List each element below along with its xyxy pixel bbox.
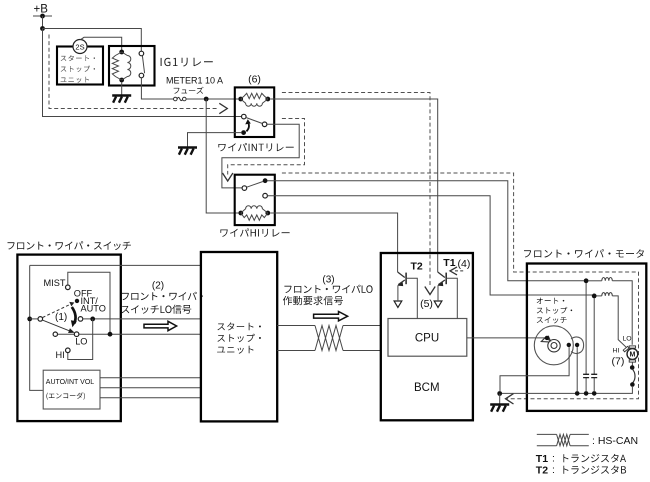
label front wiper LO request line1 bbox=[284, 285, 372, 294]
label fuse bbox=[174, 87, 204, 94]
wire pole stub bbox=[30, 318, 38, 320]
svg-text:(1): (1) bbox=[55, 312, 67, 323]
wire INT pivot to ground bbox=[188, 133, 242, 147]
junction +B terminal bbox=[40, 14, 45, 19]
arrowhead into T1 base bbox=[450, 267, 457, 275]
label IG1 relay bbox=[161, 58, 213, 67]
wire HS-CAN twist B bbox=[315, 326, 343, 351]
junction bus capacitor 2 bbox=[592, 391, 597, 396]
wire HS-CAN low rail right bbox=[343, 350, 381, 352]
wire junction to HI contact bbox=[68, 319, 93, 360]
label start-stop unit line3 bbox=[61, 77, 89, 83]
junction motor ground node bbox=[497, 391, 502, 396]
wire HI coil to T2 collector bbox=[270, 213, 397, 272]
wire +B drop bbox=[42, 16, 44, 29]
motor M armature bbox=[627, 349, 638, 360]
wire capacitor 1 to bus bbox=[585, 378, 587, 391]
label start-stop unit line2 bbox=[61, 66, 95, 72]
svg-text:MIST: MIST bbox=[44, 278, 66, 288]
junction HI coil left bbox=[238, 211, 243, 216]
junction switch LO-signal node bbox=[90, 317, 95, 322]
label front wiper switch LO signal line2 bbox=[121, 305, 191, 314]
label legend transistor A bbox=[563, 454, 626, 463]
wire LO winding to inductor bbox=[588, 280, 602, 282]
label front wiper motor title bbox=[524, 249, 644, 258]
contact INT-AUTO bbox=[78, 317, 83, 322]
wire HI relay NO to motor HI winding bbox=[267, 196, 592, 295]
junction motor HI winding feed bbox=[592, 294, 597, 299]
wire LO output bbox=[79, 333, 201, 335]
contact arm INT relay bbox=[246, 118, 262, 124]
arrow INT relay actuation bbox=[246, 123, 249, 131]
label start-stop mid line2 bbox=[217, 334, 261, 342]
label front wiper switch LO signal line1 bbox=[122, 292, 203, 300]
auto-stop switch cam plate bbox=[534, 326, 573, 365]
contact INT relay NO bbox=[262, 122, 267, 127]
wire capacitor 2 to bus bbox=[593, 378, 595, 391]
svg-text:T2: T2 bbox=[536, 465, 548, 477]
wire LO bridge bbox=[58, 333, 75, 335]
wire LO feed to capacitor 1 bbox=[585, 283, 587, 374]
wire T1 emitter bbox=[437, 285, 439, 300]
label auto-stop switch line3 bbox=[537, 317, 567, 324]
svg-text:M: M bbox=[629, 352, 635, 359]
wire T1 base to CPU bbox=[446, 278, 457, 318]
wire junction down to HI relay coil bbox=[206, 99, 238, 213]
arrowhead signal into BCM bbox=[425, 287, 435, 295]
junction auto-stop arm top bbox=[630, 365, 635, 370]
svg-text:(3): (3) bbox=[322, 275, 334, 286]
arrowhead signal to INT relay bbox=[219, 103, 227, 113]
contact HI bbox=[66, 348, 71, 353]
wire fuse to junction bbox=[186, 98, 238, 100]
svg-text::: : bbox=[552, 464, 555, 476]
svg-text:LO: LO bbox=[623, 336, 632, 343]
svg-text:CPU: CPU bbox=[415, 333, 439, 345]
svg-text:BCM: BCM bbox=[414, 382, 440, 394]
svg-text:HI: HI bbox=[613, 348, 620, 355]
wire INT-AUTO output bbox=[83, 318, 201, 320]
dashed signal start-stop to BCM bbox=[282, 93, 430, 286]
wire HS-CAN high rail right bbox=[343, 325, 381, 327]
ground front wiper motor bbox=[490, 403, 509, 406]
junction auto-stop arm bottom bbox=[630, 382, 635, 387]
dashed signal INT relay to HI relay bbox=[228, 119, 305, 175]
svg-text:+B: +B bbox=[34, 4, 49, 16]
module BCM box bbox=[381, 253, 473, 420]
contact auto-stop cam bbox=[545, 336, 549, 340]
wire INT relay output to HI relay common bbox=[222, 124, 299, 188]
contact HI relay pole bbox=[242, 186, 247, 191]
contact IG1 relay lower bbox=[139, 73, 144, 78]
junction IG1 coil bottom bbox=[119, 78, 124, 83]
label start-stop mid line3 bbox=[217, 346, 253, 354]
dashed arrow signal into T1 base (4) bbox=[455, 270, 464, 272]
svg-text:T2: T2 bbox=[411, 261, 423, 273]
resistor INT relay coil bbox=[241, 93, 268, 99]
encoder AUTO/INT VOL box bbox=[43, 370, 100, 409]
svg-text:T1: T1 bbox=[443, 257, 455, 269]
label start-stop unit line1 bbox=[61, 55, 95, 61]
inductor HI relay coil bbox=[241, 206, 268, 213]
ground INT relay bbox=[178, 146, 197, 149]
svg-text:(4): (4) bbox=[458, 258, 471, 270]
connector 2S bbox=[73, 40, 87, 54]
fuse METER1 10A bbox=[174, 97, 178, 101]
dashed signal start-stop unit to wiper INT relay bbox=[49, 35, 219, 109]
label front wiper LO request line2 bbox=[283, 296, 343, 305]
contact auto-stop right bbox=[575, 343, 579, 347]
legend HS-CAN rail top left bbox=[537, 433, 557, 435]
wire CPU to auto-stop switch bbox=[467, 337, 545, 339]
capacitor C2 bbox=[591, 374, 597, 377]
legend HS-CAN rail bottom right bbox=[570, 445, 589, 447]
svg-text:2S: 2S bbox=[75, 42, 84, 51]
resistor IG1 coil bbox=[112, 52, 121, 80]
contact HI relay common pin bbox=[263, 178, 268, 183]
arrowhead signal into HI relay bbox=[223, 173, 233, 181]
wire to motor ground bbox=[499, 394, 501, 405]
contact arm auto-stop (curved) bbox=[632, 369, 635, 383]
svg-text:: HS-CAN: : HS-CAN bbox=[592, 435, 638, 447]
wire INT coil to T1 collector bbox=[270, 99, 438, 272]
switch arm to LO (solid) bbox=[43, 320, 71, 331]
inductor motor HI winding bbox=[602, 293, 613, 296]
wire +B terminal tick bbox=[33, 15, 52, 17]
ground T2 emitter (triangle) bbox=[394, 301, 402, 307]
wire auto-stop left contact to ground bbox=[500, 347, 569, 391]
contact INT relay common bbox=[242, 114, 247, 119]
junction bus auto-stop right bbox=[575, 391, 580, 396]
wire LO winding to motor bbox=[612, 281, 632, 345]
relay IG1 box bbox=[109, 46, 155, 86]
contact MIST bbox=[66, 285, 71, 290]
wire IG1 coil to ground bbox=[121, 82, 123, 95]
label auto-stop switch line1 bbox=[537, 298, 565, 304]
wire HS-CAN low rail left bbox=[277, 350, 315, 352]
junction INT coil right bbox=[265, 97, 270, 102]
label wiper HI relay bbox=[220, 228, 289, 237]
svg-text:(2): (2) bbox=[152, 281, 164, 292]
arrow LO signal flow (2) bbox=[144, 321, 177, 330]
arrowhead signal to motor ground bbox=[506, 394, 514, 404]
wire arm to ground bus bbox=[500, 386, 632, 393]
wire HI feed to capacitor 2 bbox=[593, 298, 595, 374]
label wiper INT relay bbox=[218, 143, 293, 152]
wire HS-CAN twist A bbox=[315, 326, 343, 351]
front wiper switch box bbox=[17, 255, 120, 422]
junction bus capacitor 1 bbox=[584, 391, 589, 396]
svg-text:LO: LO bbox=[75, 336, 87, 346]
wire encoder line 3 bbox=[100, 397, 201, 399]
wire auto-stop right contact to bus bbox=[576, 347, 578, 391]
relay wiper HI box bbox=[235, 175, 275, 225]
wire 2S to IG1 coil bbox=[81, 37, 122, 50]
inductor INT relay coil bbox=[241, 99, 268, 106]
pivot INT relay movable contact bbox=[241, 130, 246, 135]
svg-text:METER1 10 A: METER1 10 A bbox=[166, 76, 223, 86]
contact switch pole bbox=[38, 317, 43, 322]
motor front wiper box bbox=[527, 264, 646, 411]
junction switch pole feed bbox=[27, 317, 32, 322]
junction HI coil right bbox=[265, 211, 270, 216]
svg-text:HI: HI bbox=[56, 350, 65, 360]
contact LO bbox=[74, 332, 79, 337]
label legend transistor B bbox=[563, 465, 626, 474]
wire IG1 contact to fuse bbox=[141, 78, 173, 99]
resistor HI relay coil bbox=[241, 213, 268, 220]
contact arm HI relay bbox=[247, 182, 263, 188]
ground IG1 relay coil bbox=[112, 94, 131, 97]
wire MIST to LO output bbox=[68, 272, 110, 332]
module CPU box bbox=[388, 319, 467, 357]
wire HI winding to motor bbox=[612, 296, 627, 349]
contact auto-stop left bbox=[567, 343, 571, 347]
wire HI relay common to motor LO winding bbox=[268, 181, 584, 281]
label auto-stop switch line2 bbox=[537, 307, 572, 314]
label front wiper switch title bbox=[8, 241, 131, 250]
wire encoder line 1 bbox=[100, 377, 201, 379]
ground T1 emitter (triangle) bbox=[434, 301, 442, 307]
legend HS-CAN rail top right bbox=[570, 433, 589, 435]
contact arm IG1 bbox=[142, 56, 144, 73]
junction +B bus split bbox=[40, 26, 45, 31]
switch arm to OFF (dashed) bbox=[43, 304, 71, 317]
svg-text:AUTO/INT VOL: AUTO/INT VOL bbox=[46, 379, 94, 386]
junction fuse node bbox=[204, 97, 209, 102]
wire T2 base to CPU bbox=[406, 278, 417, 318]
contact OFF bbox=[75, 299, 79, 303]
inductor IG1 coil bbox=[122, 52, 131, 80]
wire motor to auto-stop arm bbox=[631, 362, 633, 366]
svg-text:(5): (5) bbox=[420, 298, 433, 310]
wire HI winding to inductor bbox=[596, 295, 602, 297]
wire switch left bus bbox=[30, 265, 43, 390]
transistor T1 bbox=[438, 272, 447, 285]
wire switch feed rail bbox=[30, 264, 201, 266]
legend HS-CAN twist B bbox=[557, 434, 571, 445]
wire T2 emitter bbox=[397, 285, 399, 300]
wire +B to IG1 contact bbox=[43, 29, 142, 52]
junction INT coil left bbox=[238, 97, 243, 102]
arrow switch rotation (1) bbox=[72, 307, 76, 324]
contact LO left bbox=[53, 332, 57, 336]
wire encoder line 2 bbox=[100, 387, 201, 389]
auto-stop switch contact bump bbox=[571, 337, 584, 354]
contact IG1 relay upper bbox=[139, 51, 144, 56]
legend HS-CAN rail bottom left bbox=[537, 445, 557, 447]
junction motor LO winding feed bbox=[584, 278, 589, 283]
start-stop unit box (middle) bbox=[201, 252, 277, 421]
inductor motor LO winding bbox=[602, 277, 613, 280]
wire HS-CAN high rail left bbox=[277, 325, 315, 327]
wire +B left bus to INT relay contact bbox=[43, 29, 242, 117]
start-stop unit box (top) bbox=[57, 47, 103, 85]
contact HI relay NO bbox=[263, 193, 268, 198]
svg-text:(7): (7) bbox=[612, 356, 625, 368]
label start-stop mid line1 bbox=[217, 322, 261, 330]
junction MIST-LO node bbox=[108, 332, 113, 337]
capacitor C1 bbox=[583, 374, 589, 377]
junction IG1 coil top bbox=[119, 50, 124, 55]
label encoder bbox=[46, 392, 85, 399]
dashed signal HI relay to motor bbox=[282, 173, 639, 399]
relay wiper INT box bbox=[235, 87, 274, 137]
svg-text:(6): (6) bbox=[248, 74, 261, 86]
svg-text:AUTO: AUTO bbox=[81, 304, 106, 314]
svg-text:T1: T1 bbox=[536, 453, 548, 465]
legend HS-CAN twist A bbox=[557, 434, 571, 445]
svg-text::: : bbox=[552, 453, 555, 465]
transistor T2 bbox=[398, 272, 407, 285]
arrow LO request signal flow (3) bbox=[314, 312, 348, 321]
